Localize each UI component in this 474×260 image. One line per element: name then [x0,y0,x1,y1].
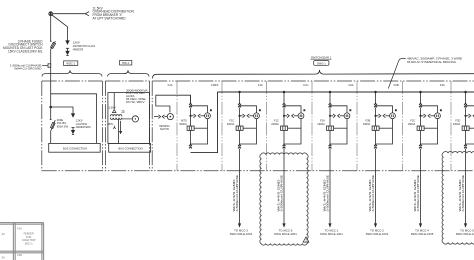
svg-text:W/1-#4/0 GND: W/1-#4/0 GND [414,179,417,211]
wire: switch to WDC-1 [50,49,52,107]
revision cloud: MCC-6 feeder [260,153,308,245]
bus connection box: TRF-1 [109,143,151,152]
svg-text:W/1-#4/0 GND: W/1-#4/0 GND [459,179,462,211]
equipment outline: TRF-1 cabinet [108,93,150,144]
svg-text:W/1-#4/0 GND: W/1-#4/0 GND [278,179,281,211]
svg-text:BUS CONNECTION: BUS CONNECTION [119,147,143,151]
leader: note to bus [388,59,406,89]
svg-text:60 HZ, 95KV: 60 HZ, 95KV [126,100,145,104]
tag SWG-1 [314,61,329,66]
svg-text:11.5KV: 11.5KV [107,106,116,110]
svg-text:DWG 600-E-1001: DWG 600-E-1001 [320,232,343,236]
svg-text:F1C: F1C [303,83,308,87]
svg-text:0A: 0A [2,233,5,236]
table: feeder schedule (cropped) [0,223,44,260]
svg-text:2000A: 2000A [271,122,279,126]
feeder wire: TO MCC-2 [375,149,377,224]
svg-text:WDC-1: WDC-1 [66,62,75,66]
svg-text:DWG 600-E-1002: DWG 600-E-1002 [366,232,389,236]
svg-text:2000A: 2000A [227,122,235,126]
svg-text:3-500kcmil CU/PHASE: 3-500kcmil CU/PHASE [417,174,420,211]
node: incoming tap point [49,12,53,16]
tag WDC-1 [64,61,78,66]
wire: junction to lightning arresters [51,107,73,114]
tag TRF-1 [120,60,132,65]
brace: WDC-1 group [42,70,102,76]
svg-text:600A SW: 600A SW [57,124,69,128]
enclosure: switchgear dashed boundary [152,81,474,171]
svg-text:MCC-1: MCC-1 [25,243,34,246]
breaker F1C: drawout air circuit breaker 2000A [281,91,306,149]
svg-text:F1C: F1C [258,83,263,87]
arrow: feeder to TO MCC-6 [282,223,285,227]
svg-text:ARRESTERS: ARRESTERS [76,125,91,129]
svg-text:W/#4 CU GROUND: W/#4 CU GROUND [14,67,42,71]
arrow: feeder to TO MCC-5 [464,223,467,227]
svg-text:ARRESTER: ARRESTER [73,48,84,52]
wire: drop from tap to fused switch [50,16,52,42]
switch S1: 3 phase fused disconnect switch [50,41,56,49]
arrester LA1: 15KV distribution class arrester [66,41,69,56]
svg-text:SWG-1: SWG-1 [317,61,326,65]
svg-text:1600A: 1600A [317,122,325,126]
switch S2: 600A fused switch in WDC-1 [50,120,55,132]
svg-text:65,000 AC SYMMETRICAL BRACING: 65,000 AC SYMMETRICAL BRACING [407,60,457,64]
svg-text:F1B/F: F1B/F [211,83,219,87]
wire: transformer primary riser [113,93,115,110]
arrow: feeder to TO MCC-1 [328,223,331,227]
arrow: source direction chevron [85,12,89,16]
svg-text:3-500kcmil CU/PHASE: 3-500kcmil CU/PHASE [462,174,465,211]
leader: cable note to marker [42,64,48,66]
revision cloud: MCC-5 feeder [442,151,474,244]
transformer T1: wye symbol [113,126,116,129]
breaker F2C: drawout air circuit breaker 1600A [417,91,442,149]
svg-text:0A: 0A [2,257,5,260]
cable marker: 1-500kcmil tag on riser [48,64,51,67]
svg-text:3-500kcmil CU/PHASE: 3-500kcmil CU/PHASE [372,174,375,211]
enclosure: TRF-1 dashed boundary [105,81,149,171]
switchgear cell separators [177,81,451,171]
arrow: feeder to TO MCC-3 [238,223,241,227]
wire: incoming link metering to main breaker [156,95,191,104]
feeder wire: TO MCC-5 [465,149,467,224]
metering compartment F1A [154,104,173,120]
equipment outline: WDC-1 cabinet [51,94,97,144]
ground: transformer neutral ground [120,121,122,131]
feeder wire: TO MCC-6 [283,149,285,224]
revision triangle delta 1 [303,237,309,242]
bus connection box: WDC-1 [49,143,100,152]
svg-text:3000A: 3000A [179,122,187,126]
svg-text:TRF-1: TRF-1 [122,61,130,65]
breaker F2D: drawout air circuit breaker 1600A [462,91,474,149]
svg-text:1600A: 1600A [408,122,416,126]
svg-text:W/1-#4/0 GND: W/1-#4/0 GND [369,179,372,211]
svg-text:1600A: 1600A [453,122,461,126]
svg-text:W/1-#4/0 GND: W/1-#4/0 GND [324,179,327,211]
svg-text:480V: 480V [107,122,113,126]
wire: junction down through switch to bus connection [50,107,52,120]
svg-text:F2B: F2B [394,83,399,87]
feeder wire: TO MCC-1 [329,149,331,224]
svg-text:F2C: F2C [440,83,445,87]
svg-text:BUS CONNECTION: BUS CONNECTION [63,147,87,151]
svg-text:3-500kcmil CU/PHASE: 3-500kcmil CU/PHASE [327,174,330,211]
arrester LA2: 12KV lightning arresters [72,114,75,135]
enclosure: common bottom boundary [42,170,474,172]
transformer T1: secondary winding [110,118,122,120]
svg-text:3-500kcmil CU/PHASE: 3-500kcmil CU/PHASE [236,174,239,211]
svg-text:DWG 600-E-1004: DWG 600-E-1004 [230,232,253,236]
feeder wire: TO MCC-4 [420,149,422,224]
svg-text:AT UPT SWITCHYARD: AT UPT SWITCHYARD [93,16,127,20]
wire: main breaker riser to bus [191,92,218,153]
svg-text:DWG 600-E-1005: DWG 600-E-1005 [411,232,434,236]
brace: TRF-1 group [108,70,149,76]
svg-text:DWG 600-E-1006: DWG 600-E-1006 [456,232,474,236]
svg-text:1600A: 1600A [363,122,371,126]
wire: tap to source note [53,13,87,15]
svg-text:15KV CLASS/110KV BIL: 15KV CLASS/110KV BIL [8,50,43,54]
breaker F2A: drawout air circuit breaker 1600A [327,91,352,149]
svg-text:3-500kcmil CU/PHASE: 3-500kcmil CU/PHASE [281,174,284,211]
brace: switchgear group [152,70,474,79]
arrow: feeder to TO MCC-2 [374,223,377,227]
transformer T1: primary winding [110,115,122,117]
svg-text:F1A: F1A [168,83,173,87]
svg-text:DWG 600-E-3001: DWG 600-E-3001 [274,232,297,236]
enclosure: WDC-1 dashed boundary [42,81,103,171]
feeder wire: TO MCC-3 [239,149,241,224]
node: WDC-1 junction [49,106,52,109]
svg-text:F2A: F2A [349,83,354,87]
breaker F2B: drawout air circuit breaker 1600A [372,91,397,149]
svg-text:SWITCHGEAR 1: SWITCHGEAR 1 [311,55,332,59]
svg-text:W/1-#4/0 GND: W/1-#4/0 GND [233,179,236,211]
wire: secondary down to bus connection [118,120,120,144]
breaker MTD: drawout air circuit breaker 3000A [187,95,212,148]
wire: diagonal tap to arrester [52,15,68,41]
arrow: feeder to TO MCC-4 [419,223,422,227]
bus: 480V main bus [218,91,474,93]
breaker F1C: drawout air circuit breaker 2000A [236,91,261,149]
svg-text:SECTION: SECTION [160,128,169,131]
svg-text:F2A: F2A [17,228,22,231]
svg-text:F2B: F2B [17,254,22,257]
device: transformer accessory circle [122,118,132,120]
transformer T1: delta symbol [112,110,116,113]
